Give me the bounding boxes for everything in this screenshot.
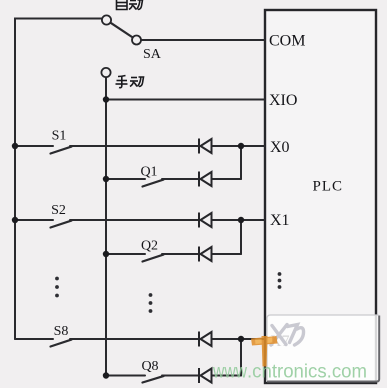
svg-text:S1: S1	[52, 129, 67, 144]
svg-text:.cntronics.com: .cntronics.com	[247, 362, 367, 383]
svg-text:PLC: PLC	[313, 179, 344, 195]
svg-text:SA: SA	[143, 47, 162, 62]
svg-text:X0: X0	[270, 139, 290, 156]
svg-text:S8: S8	[54, 324, 69, 339]
svg-text:X1: X1	[270, 212, 290, 229]
svg-text:XIO: XIO	[269, 92, 297, 109]
svg-text:www: www	[212, 362, 247, 383]
svg-text:Q8: Q8	[141, 359, 158, 374]
svg-text:Q2: Q2	[141, 239, 158, 254]
svg-text:S2: S2	[51, 203, 66, 218]
svg-text:COM: COM	[269, 33, 305, 50]
svg-text:Q1: Q1	[140, 165, 157, 180]
